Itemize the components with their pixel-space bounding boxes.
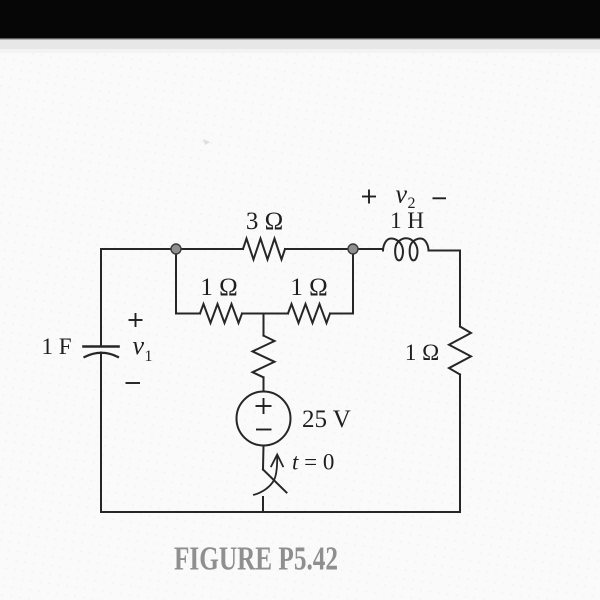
- svg-text:1 Ω: 1 Ω: [200, 274, 237, 301]
- resistor 1ohm middle body: [288, 304, 330, 323]
- switch blade: [263, 470, 287, 493]
- svg-text:FIGURE P5.42: FIGURE P5.42: [174, 541, 338, 578]
- wire right vertical lower: [459, 375, 461, 513]
- switch arrowhead: [271, 455, 283, 467]
- wire right vertical upper: [459, 251, 461, 327]
- node junction dot left: [171, 244, 181, 254]
- svg-text:1: 1: [145, 348, 153, 365]
- svg-text:2: 2: [408, 195, 416, 212]
- node junction dot right: [348, 244, 358, 254]
- wire inner-loop right horizontal: [330, 313, 353, 315]
- wire top-left horizontal: [101, 248, 243, 250]
- wire inner-loop right vertical: [352, 249, 354, 314]
- resistor 1ohm right body: [449, 327, 471, 375]
- svg-text:1 Ω: 1 Ω: [290, 274, 327, 301]
- inductor L 1H coil: [383, 238, 429, 260]
- source minus sign: [256, 429, 272, 431]
- wire left vertical lower: [100, 353, 102, 513]
- label minus v2: [433, 197, 447, 199]
- wire bottom horizontal: [101, 511, 460, 513]
- svg-text:v: v: [396, 180, 408, 209]
- wire top-right horizontal: [429, 250, 461, 252]
- wire inner-loop left horizontal: [176, 313, 200, 315]
- svg-text:v: v: [133, 331, 145, 360]
- svg-text:1 Ω: 1 Ω: [405, 340, 439, 365]
- svg-text:1 F: 1 F: [41, 334, 71, 359]
- label minus v1: [126, 382, 141, 384]
- resistor center vertical body: [253, 336, 275, 378]
- resistor 1ohm left body: [200, 304, 242, 323]
- wire left vertical upper: [100, 249, 102, 346]
- switch closing arrow curve: [254, 456, 277, 495]
- wire center stub upper: [263, 314, 265, 336]
- voltage source 25V circle: [237, 392, 291, 446]
- capacitor 1F top plate: [84, 345, 119, 348]
- scan speck: [203, 139, 210, 145]
- wire inner-loop middle horizontal: [242, 313, 288, 315]
- wire top middle: [285, 248, 383, 250]
- svg-text:t = 0: t = 0: [292, 450, 334, 475]
- capacitor 1F bottom curved plate: [85, 353, 119, 357]
- wire center stub to source: [263, 377, 265, 391]
- svg-text:3 Ω: 3 Ω: [246, 208, 283, 235]
- wire below source: [262, 446, 265, 470]
- label plus v2: [362, 196, 376, 198]
- svg-text:25 V: 25 V: [302, 406, 351, 433]
- resistor 3ohm body: [243, 239, 285, 260]
- source plus sign: [256, 405, 272, 407]
- label plus v1: [129, 319, 143, 321]
- wire bottom terminal stub: [262, 497, 264, 512]
- wire inner-loop left vertical: [175, 249, 177, 314]
